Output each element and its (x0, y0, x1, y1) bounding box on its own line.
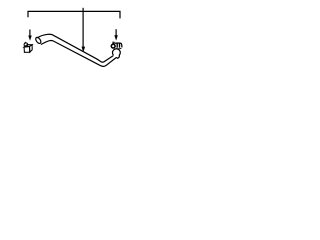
left clamp box right face (30, 45, 33, 53)
right clamp band (115, 43, 122, 47)
right clamp ear tab (113, 42, 114, 44)
left clamp box front face (24, 47, 30, 53)
node center arrowhead (82, 47, 86, 53)
right clamp ear (111, 44, 115, 48)
left clamp box top face (24, 45, 32, 47)
right clamp band bottom edge (116, 47, 122, 49)
wire left arrow line (29, 30, 31, 38)
hose top outline (37, 34, 113, 62)
wire bracket leader line top (28, 11, 120, 18)
wire right arrow line (115, 29, 117, 36)
node left arrowhead (28, 36, 32, 41)
right clamp tick 1 (116, 43, 118, 48)
hose left end opening ellipse (35, 36, 42, 44)
left clamp screw tick (25, 42, 26, 43)
wire center leader vertical (82, 8, 84, 48)
node right arrowhead (114, 35, 118, 40)
hose bottom outline (41, 40, 118, 66)
right clamp tick 2 (119, 43, 121, 48)
hose right end ring (112, 49, 120, 59)
left clamp circle (24, 43, 28, 47)
